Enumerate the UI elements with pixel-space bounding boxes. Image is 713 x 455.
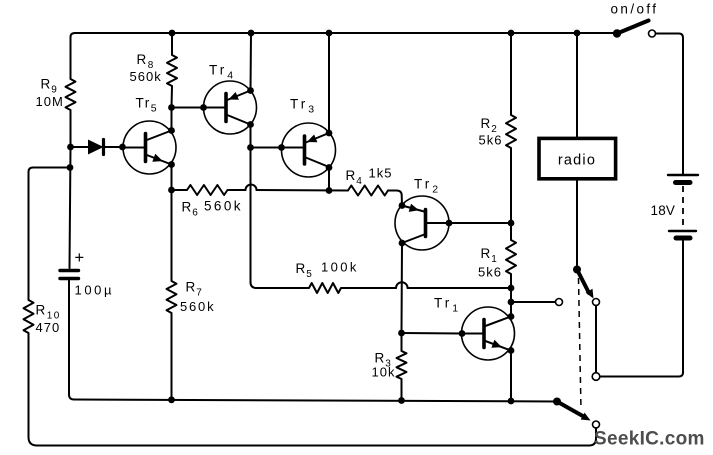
- node output junction: [508, 299, 515, 306]
- wire R1 rail mid segments: [510, 288, 512, 317]
- svg-text:560k: 560k: [180, 299, 215, 314]
- watermark SeekIC.com: [594, 429, 705, 450]
- wire S1a to S1b contact: [595, 306, 597, 373]
- resistor R10: [24, 300, 41, 446]
- node Tr1 collector: [508, 313, 515, 320]
- terminal S1b right circle: [592, 373, 600, 381]
- switch S1b lever: [557, 402, 591, 421]
- node Tr2 base junction on R1 rail: [508, 220, 515, 227]
- node top rail / R2: [508, 30, 515, 37]
- terminal S1a circle: [593, 299, 600, 306]
- svg-text:560k: 560k: [204, 198, 243, 213]
- label R8 value 560k: [130, 69, 162, 84]
- battery cell1 plate short: [676, 180, 691, 185]
- node top rail / Tr3 rail: [326, 30, 333, 37]
- switch on/off lever: [613, 21, 649, 38]
- node Tr4 base: [200, 104, 207, 111]
- node Tr1 base: [459, 330, 466, 337]
- wire Tr1 base row: [402, 332, 463, 335]
- node Tr3 base: [278, 144, 285, 151]
- node R8 rail / Tr4 base junction: [168, 104, 175, 111]
- label R1: [481, 246, 498, 265]
- node Tr3 collector bottom: [326, 164, 333, 171]
- label R8: [137, 52, 155, 71]
- transistor Tr2: [395, 196, 449, 250]
- wire Tr3 rail from top: [328, 33, 330, 133]
- wire Tr2 base row: [449, 222, 511, 224]
- wire switch to battery: [656, 34, 684, 175]
- label R4: [346, 168, 363, 187]
- svg-text:560k: 560k: [130, 69, 162, 84]
- wire output to terminal: [511, 301, 556, 303]
- wire radio bottom: [576, 181, 578, 270]
- label Tr5: [136, 96, 159, 115]
- battery 18V cell1 plate long: [668, 174, 698, 176]
- node Tr5 base: [119, 144, 126, 151]
- node Tr4 collector bottom: [247, 121, 254, 128]
- terminal on/off circle: [649, 30, 656, 37]
- switch S1a pivot: [573, 266, 581, 274]
- svg-text:18V: 18V: [651, 203, 676, 218]
- wire top supply rail: [71, 33, 618, 79]
- battery cell2 plate long: [669, 230, 696, 232]
- label R4 value 1k5: [369, 166, 393, 181]
- resistor R8: [167, 33, 177, 108]
- label on/off: [611, 2, 659, 17]
- capacitor C1 plate bottom: [60, 277, 79, 280]
- wire hop over R3 rail: [396, 282, 408, 288]
- wire R8 rail upper segment: [171, 108, 173, 131]
- wire left branch: [29, 168, 71, 301]
- switch S1a lever: [577, 270, 594, 299]
- resistor R6: [172, 185, 246, 195]
- label R5: [296, 261, 313, 280]
- terminal output circle: [556, 299, 563, 306]
- node top rail / radio: [574, 30, 581, 37]
- node Tr1 emitter: [508, 347, 515, 354]
- node top rail / Tr4 rail: [248, 30, 255, 37]
- resistor R1: [506, 223, 516, 316]
- label R2 value 5k6: [479, 133, 503, 148]
- svg-text:100µ: 100µ: [75, 283, 115, 298]
- node Tr1 base junction: [398, 330, 405, 337]
- wire Tr4 collector rail from top: [250, 33, 253, 91]
- node Tr3 emitter top: [326, 130, 333, 137]
- wire Tr4 rail down to Tr3 base tee: [250, 125, 252, 148]
- node diode anode junction: [67, 144, 74, 151]
- resistor R4: [348, 186, 388, 196]
- transistor Tr5: [123, 121, 176, 174]
- node bus / Tr1 emitter: [508, 398, 515, 405]
- battery dashed middle: [682, 186, 684, 226]
- svg-text:470: 470: [36, 320, 61, 335]
- wire R5 right segment: [408, 287, 511, 289]
- label Tr4: [209, 63, 236, 82]
- label R9 value 10M: [36, 94, 64, 109]
- node left branch junction: [67, 164, 74, 171]
- label R1 value 5k6: [478, 265, 502, 280]
- resistor R7: [167, 190, 177, 400]
- label R9: [41, 77, 58, 96]
- terminal S1b lower circle: [593, 421, 600, 428]
- node Tr2 collector: [399, 240, 406, 247]
- resistor R9: [66, 79, 76, 147]
- capacitor C1 plate top: [60, 269, 79, 272]
- label C1 value 100u: [75, 283, 115, 298]
- label R6 value 560k: [204, 198, 243, 213]
- node R6 right / Tr3 collector junction: [326, 187, 333, 194]
- wire Tr2 collector down: [401, 243, 404, 333]
- label R3: [375, 351, 392, 370]
- battery cell2 plate short: [676, 236, 690, 241]
- wire cap down to bus: [69, 281, 78, 400]
- wire Tr3 collector to R6 row: [328, 168, 330, 191]
- node R5 right junction: [508, 285, 515, 292]
- wire Tr4 base row: [172, 107, 204, 109]
- label Tr1: [434, 296, 461, 315]
- label C1 plus: [75, 249, 85, 267]
- dashed switch link: [579, 278, 582, 410]
- diode D1: [71, 140, 123, 155]
- label R10 value 470: [36, 320, 61, 335]
- svg-text:+: +: [75, 249, 85, 267]
- label R10: [36, 303, 61, 322]
- wire Tr5 emitter to R6: [171, 165, 173, 191]
- resistor R5: [257, 283, 397, 293]
- wire hop over Tr4 rail: [246, 185, 257, 191]
- svg-text:100k: 100k: [321, 259, 359, 274]
- node R6 left: [168, 187, 175, 194]
- svg-text:10M: 10M: [36, 94, 64, 109]
- transistor Tr4: [204, 81, 257, 134]
- node bus / R7: [168, 396, 175, 403]
- wire R6-R4 mid segment: [257, 189, 349, 192]
- wire battery negative down: [600, 241, 683, 377]
- svg-text:radio: radio: [558, 153, 596, 169]
- node top rail / R8: [169, 30, 176, 37]
- wire radio top: [576, 33, 578, 137]
- label R7 value 560k: [180, 299, 215, 314]
- label R7: [186, 280, 203, 299]
- node Tr2 emitter: [399, 202, 406, 209]
- node bus / R3: [398, 397, 405, 404]
- svg-text:on/off: on/off: [611, 2, 659, 17]
- resistor R3: [397, 333, 407, 400]
- label Tr3: [290, 97, 317, 116]
- wire R4 to Tr2 emitter: [388, 191, 402, 206]
- wire Tr3 base row: [251, 147, 282, 149]
- transistor Tr3: [282, 123, 336, 177]
- svg-text:5k6: 5k6: [479, 133, 503, 148]
- svg-text:5k6: 5k6: [478, 265, 502, 280]
- wire bus upper: [74, 400, 557, 402]
- resistor R2: [506, 33, 516, 223]
- node Tr5 collector: [168, 127, 175, 134]
- node Tr5 emitter: [168, 161, 175, 168]
- transistor Tr1: [462, 307, 515, 360]
- node Tr3 base junction: [247, 144, 254, 151]
- node Tr2 base edge: [446, 220, 453, 227]
- label radio: [558, 153, 596, 169]
- label R6: [182, 200, 199, 219]
- wire bus lower: [37, 428, 596, 446]
- switch S1b pivot: [553, 398, 561, 406]
- label R5 value 100k: [321, 259, 359, 274]
- label R2: [481, 116, 498, 135]
- wire Tr1 emitter down: [510, 351, 512, 402]
- svg-text:SeekIC.com: SeekIC.com: [594, 429, 705, 450]
- label R3 value 10k: [372, 365, 396, 380]
- label Tr2: [414, 177, 441, 196]
- label 18V: [651, 203, 676, 218]
- wire diode junction down to cap: [70, 147, 71, 268]
- svg-text:10k: 10k: [372, 365, 396, 380]
- wire rail x250 down to R5 corner: [251, 148, 257, 289]
- node Tr4 emitter top: [247, 87, 254, 94]
- box radio: [539, 138, 616, 178]
- svg-text:1k5: 1k5: [369, 166, 393, 181]
